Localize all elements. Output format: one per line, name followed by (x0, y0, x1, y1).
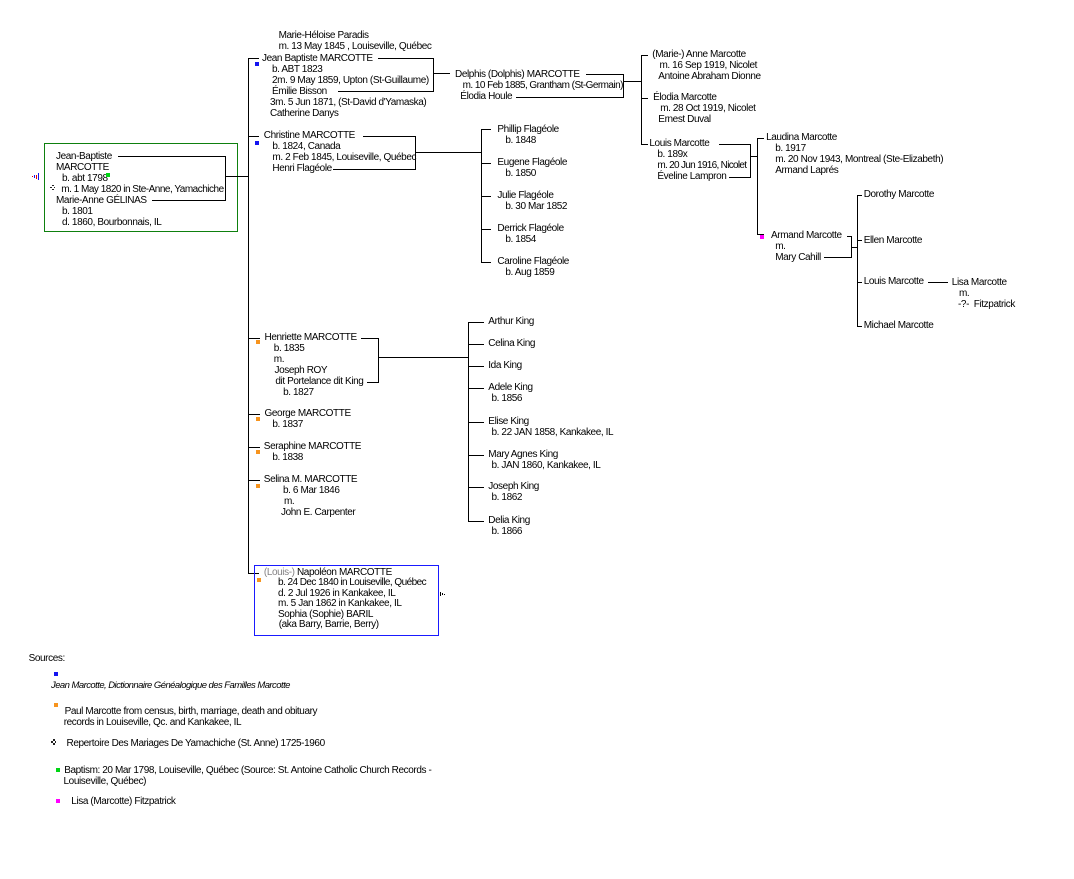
person George MARCOTTE (0, 0, 1, 1)
person Caroline Flageole (0, 0, 1, 1)
person Louis Marcotte (gen 4) (0, 0, 1, 1)
person Celina King (0, 0, 1, 1)
wire: Henriette couple bracket and connector to King rail (0, 0, 1, 1)
wire: tick to Derrick Flageole (0, 0, 1, 1)
wire: Louis Marcotte couple bracket and connector to gen-5 rail (0, 0, 1, 1)
wire: tick to Selina M. MARCOTTE (0, 0, 1, 1)
wire: tick to Seraphine MARCOTTE (0, 0, 1, 1)
wire: tick to (Louis-) Napoleon MARCOTTE (0, 0, 1, 1)
person Arthur King (0, 0, 1, 1)
source legend text 4 (Baptism) (0, 0, 1, 1)
wire: tick to George MARCOTTE (0, 0, 1, 1)
person Christine MARCOTTE (0, 0, 1, 1)
wire: tick to Adele King (0, 0, 1, 1)
person Lisa Marcotte (0, 0, 1, 1)
person Delphis (Dolphis) MARCOTTE (0, 0, 1, 1)
source marker magenta square (Armand Marcotte) (0, 0, 1, 1)
person (Marie-) Anne Marcotte (0, 0, 1, 1)
wire: Christine couple bracket and connector to Flageole rail (0, 0, 1, 1)
person Mary Agnes King (0, 0, 1, 1)
wire: tick to Ellen Marcotte (0, 0, 1, 1)
person Joseph King (0, 0, 1, 1)
wire: tick to Christine MARCOTTE (0, 0, 1, 1)
wire: gen-5 rail (Louis children) (0, 0, 1, 1)
wire: tick to Elodia Marcotte (0, 0, 1, 1)
wire: tick to Ida King (0, 0, 1, 1)
wire: Armand couple bracket and connector to gen-6 rail (0, 0, 1, 1)
wire: tick to Arthur King (0, 0, 1, 1)
source legend text 3 (Repertoire Des Mariages) (0, 0, 1, 1)
spouse Marie-Heloise Paradis (0, 0, 1, 1)
source legend diamond (0, 0, 1, 1)
wire: tick to Joseph King (0, 0, 1, 1)
wire: tick to Mary Agnes King (0, 0, 1, 1)
wire: tick to Dorothy Marcotte (0, 0, 1, 1)
person Elise King (0, 0, 1, 1)
person Delia King (0, 0, 1, 1)
wire: tick to Michael Marcotte (0, 0, 1, 1)
person Julie Flageole (0, 0, 1, 1)
person Ida King (0, 0, 1, 1)
wire: generation-2 children rail (0, 0, 1, 1)
source marker diamond before marriage line (root) (0, 0, 1, 1)
source marker orange square (George MARCOTTE) (0, 0, 1, 1)
person Jean-Baptiste MARCOTTE (root husband) (0, 0, 1, 1)
source legend text 2 (Paul Marcotte records) (0, 0, 1, 1)
person Henriette MARCOTTE and spouse Joseph ROY (0, 0, 1, 1)
source marker green square (baptism) after b. abt 1798 (0, 0, 1, 1)
person Derrick Flageole (0, 0, 1, 1)
source marker orange square (Selina M. MARCOTTE) (0, 0, 1, 1)
wire: root couple bracket and connector to children rail (0, 0, 1, 1)
source legend orange square (0, 0, 1, 1)
wire: tick to Julie Flageole (0, 0, 1, 1)
wire: gen-4 rail (Delphis children) (0, 0, 1, 1)
person Eugene Flageole (0, 0, 1, 1)
person Elodia Marcotte (0, 0, 1, 1)
source legend magenta square (0, 0, 1, 1)
person Ellen Marcotte (0, 0, 1, 1)
record icon (red/blue bars) left of root family box (0, 0, 1, 1)
wire: tick to Jean Baptiste MARCOTTE (0, 0, 1, 1)
person Dorothy Marcotte (0, 0, 1, 1)
wire: tick to (Marie-) Anne Marcotte (0, 0, 1, 1)
source marker orange square (Henriette MARCOTTE) (0, 0, 1, 1)
person Laudina Marcotte (0, 0, 1, 1)
wire: tick to Louis Marcotte (gen 4) (0, 0, 1, 1)
person Louis Marcotte (gen 6) (0, 0, 1, 1)
wire: gen-6 rail (Armand children) (0, 0, 1, 1)
continuation marker right of Napoleon box (0, 0, 1, 1)
sources heading (0, 0, 1, 1)
person Selina M. MARCOTTE (0, 0, 1, 1)
wire: tick to Laudina Marcotte (0, 0, 1, 1)
source marker orange square (Napoleon MARCOTTE) (0, 0, 1, 1)
wire: tick to Armand Marcotte (0, 0, 1, 1)
wire: Flageole children rail (0, 0, 1, 1)
person Jean Baptiste MARCOTTE (0, 0, 1, 1)
source legend text 1 (Jean Marcotte dictionary) (0, 0, 1, 1)
source legend green square (0, 0, 1, 1)
person (Louis-) Napoleon MARCOTTE (0, 0, 1, 1)
wire: tick to Phillip Flageole (0, 0, 1, 1)
source legend blue square (0, 0, 1, 1)
marriage line root (0, 0, 1, 1)
family box Jean-Baptiste MARCOTTE / Marie-Anne GELINAS (green border) (0, 0, 1, 1)
source marker blue square (Christine MARCOTTE) (0, 0, 1, 1)
wire: tick to Caroline Flageole (0, 0, 1, 1)
person Michael Marcotte (0, 0, 1, 1)
wire: connector Louis Marcotte to Lisa Marcotte (0, 0, 1, 1)
source legend text 5 (Lisa Fitzpatrick) (0, 0, 1, 1)
person Marie-Anne GELINAS (root wife) (0, 0, 1, 1)
person Seraphine MARCOTTE (0, 0, 1, 1)
wire: King children rail (0, 0, 1, 1)
wire: tick to Eugene Flageole (0, 0, 1, 1)
wire: tick to Delia King (0, 0, 1, 1)
family box (Louis-) Napoleon MARCOTTE (blue border) (0, 0, 1, 1)
wire: tick to Louis Marcotte (gen 6) (0, 0, 1, 1)
person Phillip Flageole (0, 0, 1, 1)
person Adele King (0, 0, 1, 1)
source marker orange square (Seraphine MARCOTTE) (0, 0, 1, 1)
person Armand Marcotte (0, 0, 1, 1)
wire: tick to Celina King (0, 0, 1, 1)
wire: Jean Baptiste couple bracket and connector to Delphis (0, 0, 1, 1)
wire: tick to Henriette MARCOTTE (0, 0, 1, 1)
wire: tick to Elise King (0, 0, 1, 1)
wire: Delphis couple bracket and connector to gen-4 rail (0, 0, 1, 1)
source marker blue square (Jean Baptiste MARCOTTE) (0, 0, 1, 1)
